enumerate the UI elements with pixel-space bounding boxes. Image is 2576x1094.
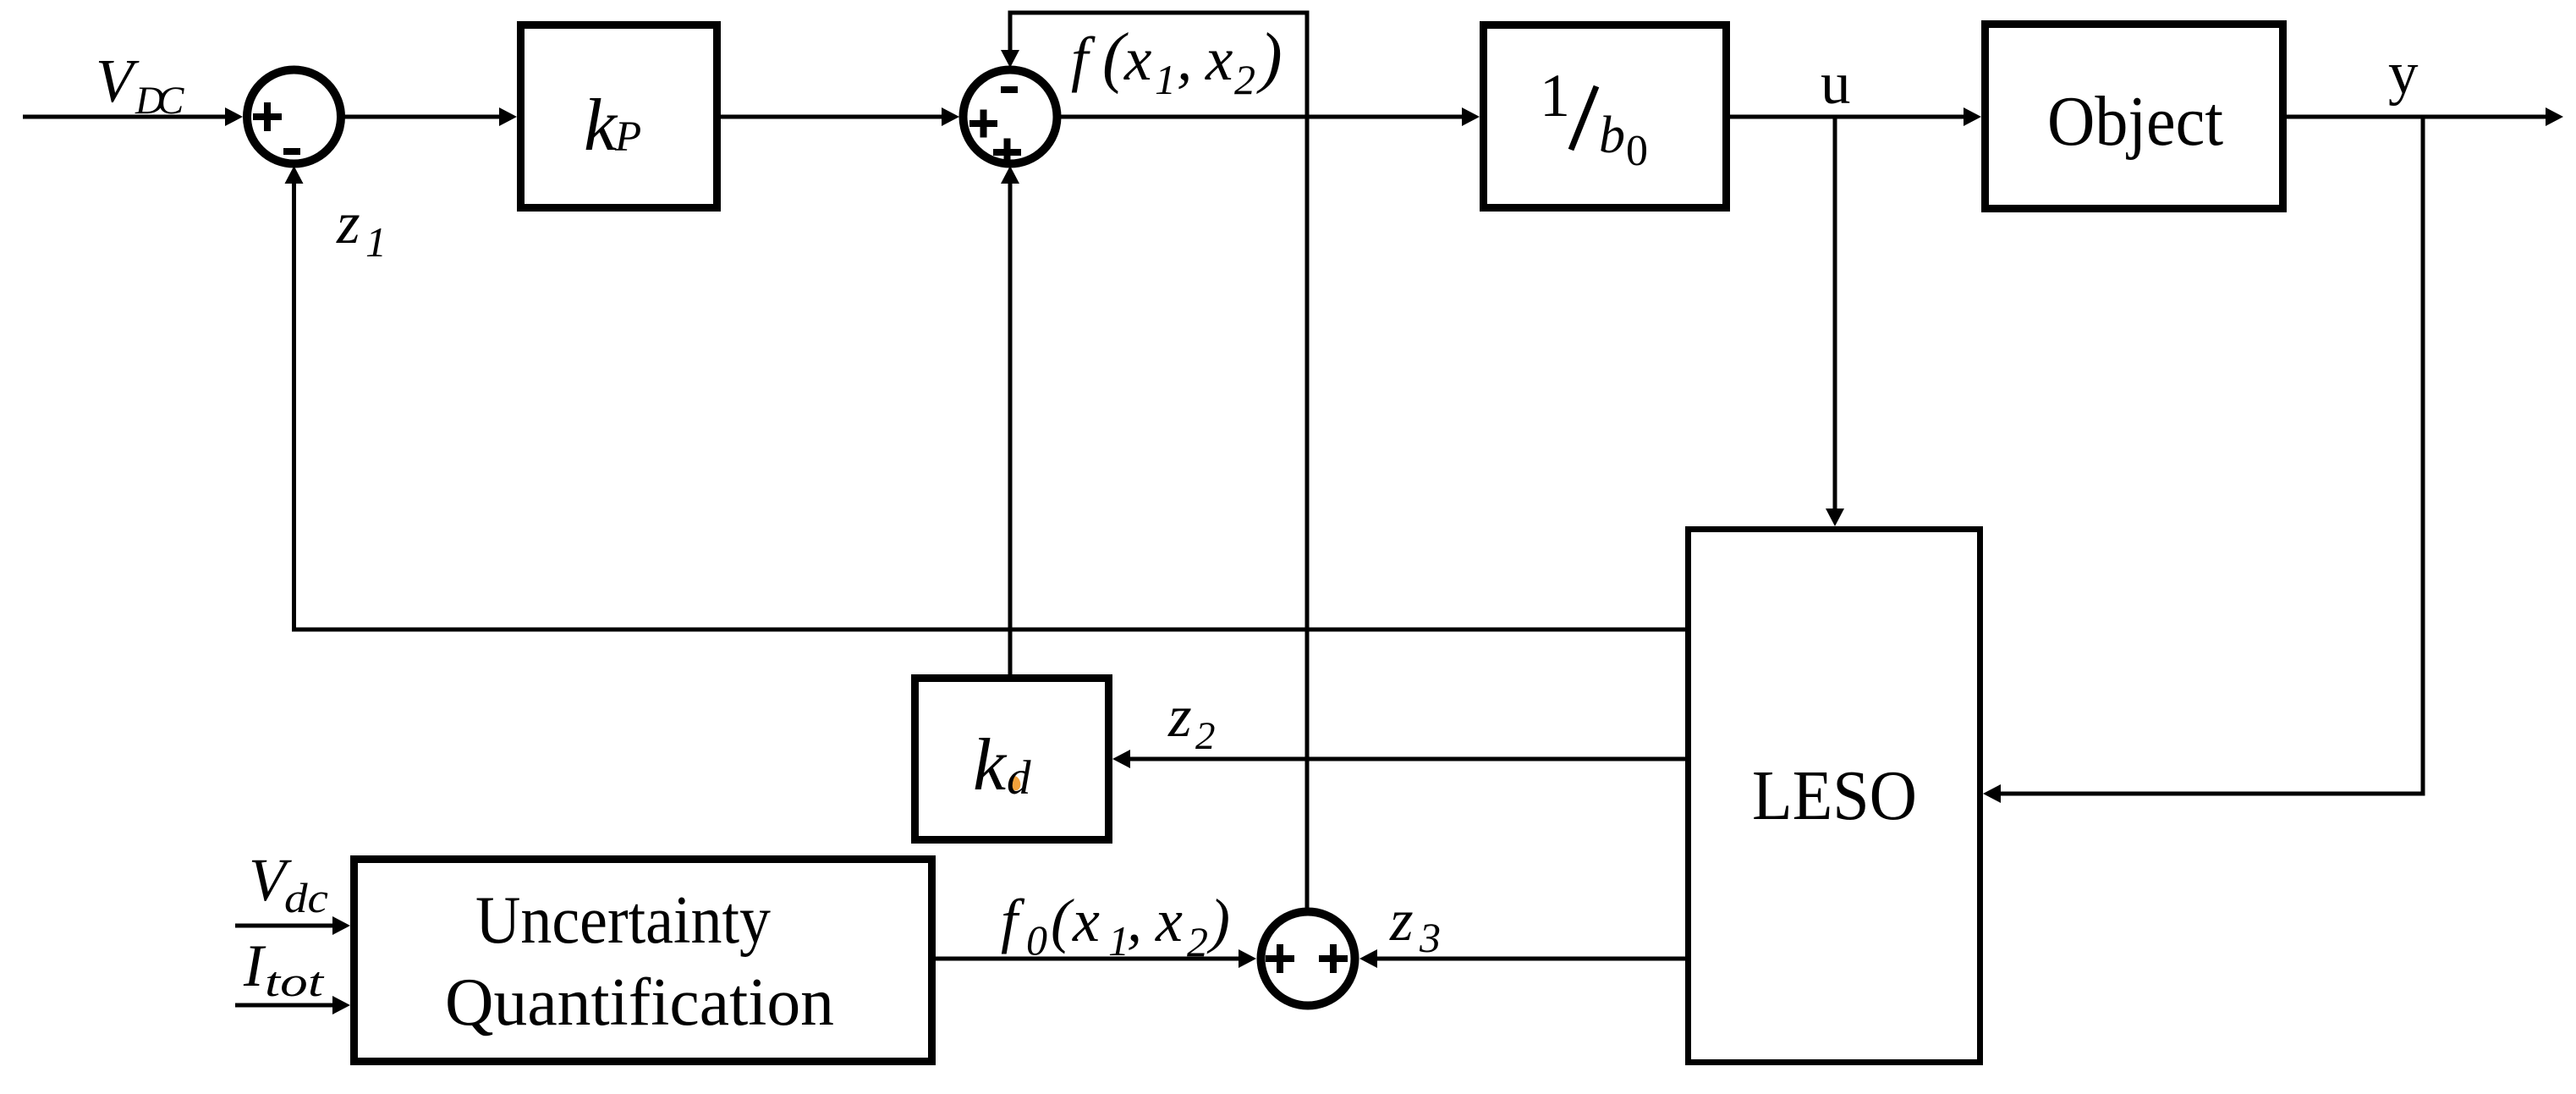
svg-text:z: z [1389, 888, 1414, 954]
block 1/b0 [1484, 25, 1727, 208]
svg-text:1: 1 [365, 218, 387, 266]
wire u branch down to LESO [1826, 117, 1844, 526]
svg-text:x: x [1205, 25, 1233, 93]
svg-text:1: 1 [1155, 56, 1176, 103]
label Vdc [249, 846, 328, 921]
wire kd up to S2 bottom [1001, 166, 1019, 674]
wire z1 from LESO left to S1 bottom [285, 166, 1686, 632]
svg-text:Quantification: Quantification [445, 965, 834, 1040]
wire f0 from UQ right to S3 [936, 949, 1256, 968]
svg-text:): ) [1256, 20, 1283, 95]
wire Vdc input [235, 916, 350, 935]
wire 1/b0 to Object, node u [1730, 107, 1981, 126]
svg-text:0: 0 [1026, 916, 1047, 964]
label Itot [243, 933, 324, 1005]
summing junction S3 [1261, 912, 1355, 1006]
wire input VDC to summing junction S1 [23, 107, 243, 126]
svg-text:Uncertainty: Uncertainty [475, 883, 771, 958]
svg-text:(: ( [1051, 887, 1074, 954]
wire Object to output y [2287, 107, 2563, 126]
svg-text:P: P [614, 113, 641, 161]
svg-text:dc: dc [284, 874, 328, 921]
summing junction S2 [964, 70, 1057, 167]
label z1 [336, 190, 387, 266]
svg-text:): ) [1206, 887, 1230, 954]
svg-text:b: b [1599, 107, 1625, 164]
svg-text:y: y [2388, 41, 2419, 107]
block kP [521, 25, 717, 208]
svg-text:3: 3 [1419, 914, 1441, 961]
wire feedback from S3 top up and left into S2 top (minus) [1001, 11, 1310, 910]
block kd with orange-filled d [915, 679, 1109, 840]
wire kP to summing junction S2 [721, 107, 959, 126]
svg-text:x: x [1123, 25, 1151, 93]
wire Itot input [235, 996, 350, 1014]
svg-text:,: , [1177, 25, 1192, 93]
svg-text:z: z [336, 190, 360, 256]
label z3 [1389, 888, 1441, 961]
svg-text:u: u [1821, 51, 1851, 117]
svg-text:,: , [1127, 887, 1142, 954]
label V_DC [96, 47, 184, 123]
label z2 [1167, 684, 1216, 758]
svg-text:k: k [584, 85, 618, 167]
svg-text:2: 2 [1234, 56, 1255, 103]
svg-text:0: 0 [1626, 127, 1648, 175]
svg-text:x: x [1072, 887, 1100, 954]
wire z2 from LESO left to kd right [1112, 750, 1685, 768]
svg-text:Object: Object [2047, 82, 2223, 161]
svg-text:2: 2 [1187, 918, 1208, 965]
wire y branch down and into LESO right side [1983, 117, 2425, 803]
wire z3 from LESO left to S3 right [1359, 949, 1685, 968]
label f(x1,x2) [1071, 20, 1283, 103]
svg-text:1: 1 [1540, 62, 1570, 129]
svg-text:I: I [243, 933, 266, 999]
block LESO [1689, 530, 1980, 1063]
wire S1 to kP [341, 107, 517, 126]
block Uncertainty Quantification [354, 860, 932, 1062]
summing junction S1 [247, 70, 341, 164]
svg-text:tot: tot [265, 958, 324, 1005]
block Object [1986, 25, 2283, 209]
svg-text:LESO: LESO [1752, 756, 1917, 835]
label f0(x1,x2) [1001, 887, 1230, 965]
svg-text:x: x [1155, 887, 1183, 954]
wire S2 to block 1/b0 [1061, 107, 1480, 126]
